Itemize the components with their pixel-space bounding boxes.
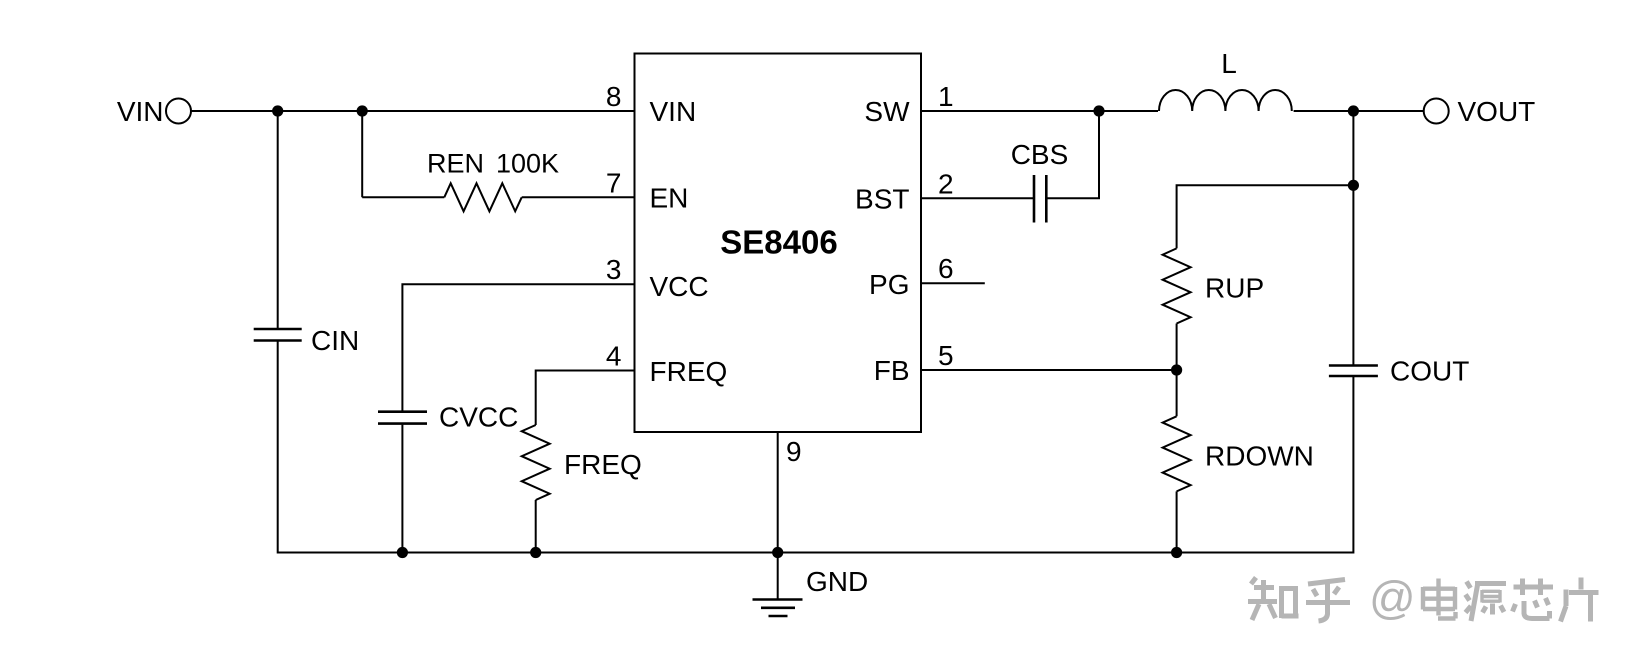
- svg-text:EN: EN: [650, 183, 689, 214]
- wire PG stub pin 6: [921, 282, 985, 284]
- wire RUP to FB node: [1176, 324, 1178, 371]
- svg-text:2: 2: [938, 168, 954, 199]
- capacitor CVCC: [378, 412, 427, 424]
- wire VOUT node down to COUT: [1352, 111, 1354, 365]
- svg-text:FB: FB: [874, 355, 910, 386]
- wire L to VOUT: [1294, 110, 1424, 112]
- node junction VIN-REN: [357, 105, 368, 116]
- node junction rail GND: [772, 547, 783, 558]
- svg-text:PG: PG: [869, 269, 909, 300]
- svg-text:8: 8: [606, 81, 622, 112]
- node junction rail FREQ: [530, 547, 541, 558]
- svg-text:6: 6: [938, 253, 954, 284]
- wire RUP top to VOUT node: [1177, 185, 1354, 248]
- svg-text:7: 7: [606, 167, 622, 198]
- wire FB node to RDOWN: [1176, 370, 1178, 416]
- wire CBS to SW node: [1046, 111, 1100, 198]
- svg-text:FREQ: FREQ: [564, 449, 642, 480]
- inductor L: [1159, 90, 1292, 111]
- wire VIN to pin 8: [191, 110, 635, 112]
- svg-text:REN: REN: [427, 149, 484, 179]
- svg-text:L: L: [1221, 48, 1237, 79]
- capacitor CIN: [254, 329, 302, 341]
- svg-text:5: 5: [938, 340, 954, 371]
- svg-text:VIN: VIN: [650, 96, 697, 127]
- svg-text:COUT: COUT: [1390, 356, 1469, 387]
- node junction FB: [1171, 364, 1182, 375]
- svg-text:CVCC: CVCC: [439, 402, 518, 433]
- wire CIN branch vertical: [277, 111, 279, 328]
- svg-text:CIN: CIN: [311, 325, 359, 356]
- svg-text:@: @: [1369, 572, 1416, 624]
- svg-text:FREQ: FREQ: [650, 356, 728, 387]
- node junction VOUT: [1348, 105, 1359, 116]
- svg-text:SE8406: SE8406: [720, 224, 837, 261]
- svg-text:VCC: VCC: [650, 271, 709, 302]
- resistor RDOWN: [1163, 416, 1191, 491]
- wire VCC pin 3: [402, 284, 634, 411]
- svg-text:SW: SW: [864, 96, 910, 127]
- resistor FREQ: [522, 425, 550, 500]
- wire BST pin 2: [921, 197, 1034, 199]
- node junction SW-CBS: [1093, 105, 1104, 116]
- svg-text:GND: GND: [806, 566, 868, 597]
- svg-text:BST: BST: [855, 183, 909, 214]
- wire COUT to ground rail: [1352, 377, 1354, 554]
- terminal VIN: [166, 99, 191, 124]
- wire pin 9: [777, 432, 779, 554]
- capacitor CBS: [1034, 175, 1046, 223]
- node junction RUP top: [1348, 180, 1359, 191]
- wire REN to pin 7: [522, 196, 635, 198]
- svg-text:CBS: CBS: [1011, 139, 1069, 170]
- wire FREQ pin 4: [536, 371, 635, 426]
- wire ground rail: [278, 552, 1354, 554]
- svg-text:RDOWN: RDOWN: [1205, 441, 1314, 472]
- svg-text:3: 3: [606, 254, 622, 285]
- node junction rail RDOWN: [1171, 547, 1182, 558]
- capacitor COUT: [1329, 366, 1378, 377]
- svg-text:VOUT: VOUT: [1458, 96, 1536, 127]
- resistor REN: [444, 183, 521, 211]
- svg-text:100K: 100K: [496, 149, 559, 179]
- wire CIN to ground rail: [277, 342, 279, 554]
- node junction VIN-CIN: [272, 105, 283, 116]
- node junction rail CVCC: [397, 547, 408, 558]
- ground: [753, 553, 803, 617]
- wire RDOWN to ground rail: [1176, 491, 1178, 553]
- svg-text:1: 1: [938, 81, 954, 112]
- resistor RUP: [1163, 248, 1191, 323]
- wire EN branch vertical: [361, 111, 363, 197]
- IC U1 SE8406 body: [635, 54, 922, 433]
- wire FB pin 5: [921, 369, 1177, 371]
- wire to resistor REN: [362, 196, 444, 198]
- terminal VOUT: [1424, 99, 1449, 124]
- wire CVCC to ground rail: [401, 425, 403, 554]
- svg-text:VIN: VIN: [117, 96, 164, 127]
- svg-text:9: 9: [786, 436, 802, 467]
- watermark zhihu @dianyuanxinpian: [1248, 578, 1599, 622]
- wire SW pin 1: [921, 110, 1158, 112]
- svg-text:4: 4: [606, 341, 622, 372]
- svg-text:RUP: RUP: [1205, 273, 1264, 304]
- wire FREQ resistor to ground rail: [535, 500, 537, 554]
